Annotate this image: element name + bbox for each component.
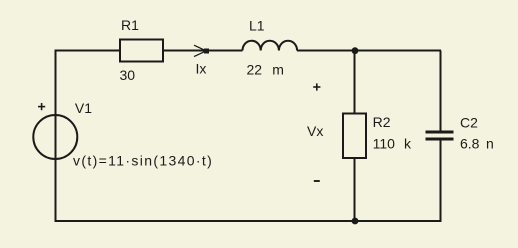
wire R2 branch lower [354, 158, 356, 221]
wire left vertical through source [55, 51, 57, 222]
voltage source V1 [33, 115, 77, 159]
svg-text:V1: V1 [75, 100, 92, 116]
svg-text:Vx: Vx [307, 123, 323, 139]
capacitor C2 plate top [426, 131, 454, 134]
wire inductor to top-right corner [297, 50, 441, 52]
svg-text:6.8: 6.8 [460, 136, 480, 152]
wire right vertical upper (C2 branch) [440, 51, 442, 132]
current arrow Ix [194, 45, 206, 56]
node A junction dot top [352, 47, 359, 54]
svg-text:R1: R1 [121, 17, 139, 33]
svg-text:n: n [486, 136, 494, 152]
resistor R2 [343, 114, 366, 159]
wire bottom [55, 220, 442, 222]
wire R2 branch upper [354, 51, 356, 114]
svg-text:22: 22 [247, 62, 263, 78]
capacitor C2 plate bottom [426, 138, 454, 141]
wire R1 to arrow to inductor [163, 50, 243, 52]
wire top-left segment [56, 51, 121, 73]
Vx minus annotation [314, 180, 320, 182]
wire right vertical lower (C2 branch) [440, 140, 442, 222]
svg-text:30: 30 [120, 67, 136, 83]
node B junction dot bottom [352, 218, 359, 225]
svg-text:C2: C2 [460, 115, 478, 131]
svg-text:R2: R2 [373, 114, 391, 130]
svg-text:v(t)=11·sin(1340·t): v(t)=11·sin(1340·t) [73, 153, 213, 169]
V1 plus polarity marker [38, 103, 45, 110]
resistor R1 [120, 40, 163, 62]
Vx plus annotation [313, 83, 320, 90]
svg-text:Ix: Ix [196, 61, 207, 77]
svg-text:k: k [404, 136, 412, 152]
svg-text:L1: L1 [249, 18, 265, 34]
svg-text:m: m [272, 62, 284, 78]
inductor L1 [243, 41, 298, 51]
svg-text:110: 110 [373, 136, 396, 152]
